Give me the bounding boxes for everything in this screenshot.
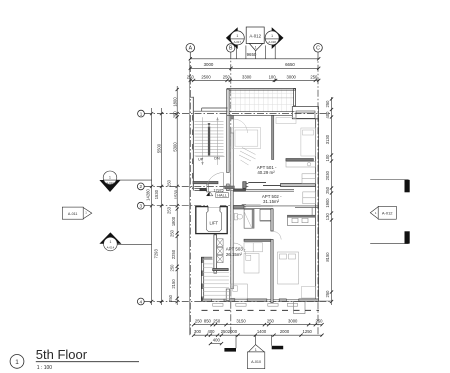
- svg-text:A-011: A-011: [68, 212, 78, 216]
- stair center divider: [201, 117, 218, 165]
- grid line C: [317, 52, 319, 335]
- svg-text:A-018: A-018: [268, 40, 276, 44]
- svg-text:1800: 1800: [171, 216, 176, 226]
- svg-text:250: 250: [167, 179, 172, 187]
- left dimension line middle: [154, 108, 164, 305]
- apt501 rug and table: [232, 128, 261, 165]
- svg-text:250: 250: [170, 264, 175, 272]
- apt503 interior door arc: [234, 243, 246, 255]
- svg-text:APT 501 -: APT 501 -: [257, 165, 277, 170]
- dimension line 250/2500/250/3300/100/3000/250: [187, 75, 320, 83]
- apt502 bed: [278, 252, 299, 284]
- lower-left exterior wall: [201, 257, 212, 299]
- svg-text:1530: 1530: [173, 189, 178, 199]
- svg-text:1: 1: [255, 348, 257, 352]
- dimension connector line left: [188, 59, 190, 335]
- dimension line 9650 top: [189, 52, 321, 60]
- right exterior wall: [315, 119, 318, 302]
- apt503 bed: [231, 284, 247, 298]
- apt502 bedroom divider wall: [271, 209, 273, 303]
- svg-text:2250: 2250: [171, 249, 176, 259]
- svg-text:A-010: A-010: [251, 360, 261, 364]
- svg-text:2000: 2000: [280, 329, 290, 334]
- svg-text:B: B: [229, 46, 233, 52]
- hall door arc: [206, 173, 223, 190]
- apt502 kitchen: [287, 215, 315, 225]
- svg-text:3000: 3000: [204, 62, 214, 67]
- top-right window box: [292, 107, 318, 119]
- svg-text:DN: DN: [214, 157, 220, 161]
- grid bubble A: [186, 44, 195, 53]
- grid line A: [189, 53, 191, 336]
- svg-text:250: 250: [316, 319, 324, 324]
- grid line 1: [145, 113, 332, 115]
- elevation marker A-013 left: [99, 171, 151, 192]
- lift shaft: [196, 206, 227, 234]
- svg-text:1: 1: [140, 111, 143, 116]
- duct shaft wall: [213, 235, 229, 273]
- stair right wall: [227, 89, 230, 191]
- apt501 closet: [302, 174, 315, 184]
- svg-text:250: 250: [325, 290, 330, 298]
- stair labels: [198, 157, 220, 162]
- level marker hall: [206, 188, 224, 196]
- left dimension line inner: [167, 86, 179, 305]
- svg-text:1: 1: [15, 359, 19, 366]
- grid bubble C: [314, 44, 323, 53]
- svg-text:1: 1: [271, 34, 273, 38]
- svg-text:2030: 2030: [325, 170, 330, 180]
- elevation marker A-017 top-left: [226, 27, 244, 49]
- svg-text:250: 250: [223, 75, 231, 80]
- lift car: [206, 211, 221, 232]
- svg-text:130: 130: [325, 213, 330, 221]
- svg-text:1900: 1900: [325, 198, 330, 208]
- grid line 3: [144, 205, 233, 207]
- title text 5th Floor: [36, 347, 139, 371]
- apt501 divider wall: [272, 116, 274, 160]
- svg-text:3: 3: [140, 204, 143, 209]
- dim extension line bottom right: [319, 300, 333, 302]
- section marker A-010 bottom: [224, 335, 283, 368]
- apt501 kitchen counter: [286, 162, 315, 168]
- svg-text:A-012: A-012: [249, 34, 261, 39]
- svg-text:100: 100: [325, 154, 330, 162]
- svg-text:5300: 5300: [172, 142, 177, 152]
- svg-text:1800: 1800: [172, 97, 177, 107]
- grid bubble 1: [138, 110, 145, 117]
- elevation marker A-014 left lower: [99, 232, 151, 250]
- stair upper treads: [195, 122, 225, 157]
- exterior stoop bottom right: [294, 302, 306, 314]
- windows in bottom wall: [212, 299, 299, 306]
- hall label: [216, 193, 229, 198]
- right dimension line: [325, 97, 333, 305]
- svg-text:6650: 6650: [285, 62, 295, 67]
- svg-text:250: 250: [170, 229, 175, 237]
- svg-text:5th Floor: 5th Floor: [36, 347, 88, 362]
- apt501 south wall with balcony door: [243, 182, 316, 189]
- elevation marker A-018 top-right: [265, 27, 283, 49]
- svg-text:1: 1: [109, 240, 111, 244]
- svg-text:400: 400: [213, 338, 221, 343]
- grid bubble 4: [137, 298, 144, 305]
- dashed overhead line on left wall: [192, 115, 194, 189]
- apt502 bedroom door: [271, 231, 281, 240]
- bottom dimension line row 2: [192, 329, 324, 337]
- grid bubble B: [227, 44, 235, 52]
- svg-text:7293: 7293: [154, 248, 159, 258]
- svg-text:250: 250: [310, 75, 318, 80]
- svg-text:40.29 m²: 40.29 m²: [257, 170, 275, 175]
- apt501 bed: [276, 118, 315, 157]
- stair hall divider wall: [194, 188, 206, 190]
- svg-text:HALL: HALL: [217, 193, 228, 198]
- apt502 label: [262, 194, 282, 204]
- terrace paving grid: [229, 90, 293, 113]
- bottom dimension line row 1: [192, 319, 324, 327]
- svg-text:1 : 100: 1 : 100: [37, 365, 53, 371]
- grid line 4: [144, 301, 330, 303]
- svg-text:300: 300: [194, 329, 202, 334]
- svg-text:400: 400: [325, 111, 330, 119]
- section marker A-012 top: [246, 27, 264, 51]
- bottom mini dimension 400: [209, 338, 223, 346]
- grid line B: [230, 52, 232, 335]
- apt503 label: [226, 247, 246, 257]
- svg-text:A-017: A-017: [234, 40, 242, 44]
- svg-text:250: 250: [195, 319, 203, 324]
- svg-text:253: 253: [167, 206, 172, 214]
- dashed overhead line on lower-left wall: [201, 258, 203, 302]
- svg-text:250: 250: [325, 100, 330, 108]
- svg-text:A-014: A-014: [107, 246, 115, 250]
- title bubble: [10, 355, 24, 369]
- apt501 entry door: [234, 119, 248, 133]
- svg-text:100: 100: [269, 75, 277, 80]
- svg-text:2500: 2500: [201, 75, 211, 80]
- svg-text:A-013: A-013: [106, 181, 114, 185]
- wall grid B interior: [225, 115, 235, 288]
- svg-text:2000: 2000: [228, 329, 238, 334]
- svg-text:A-012: A-012: [382, 211, 393, 216]
- svg-text:C: C: [316, 46, 320, 52]
- svg-text:1400: 1400: [257, 329, 267, 334]
- grid bubble 2: [137, 183, 144, 190]
- svg-text:1530: 1530: [154, 189, 159, 199]
- svg-text:250: 250: [213, 319, 221, 324]
- left exterior wall: [190, 97, 193, 191]
- svg-text:1: 1: [236, 34, 238, 38]
- shower: [244, 209, 254, 228]
- svg-text:1: 1: [85, 210, 87, 214]
- svg-text:250: 250: [168, 294, 173, 302]
- svg-text:250: 250: [325, 186, 330, 194]
- svg-text:3000: 3000: [288, 319, 298, 324]
- svg-text:31.15m²: 31.15m²: [263, 199, 280, 204]
- svg-text:LIFT: LIFT: [209, 221, 218, 226]
- svg-text:8150: 8150: [325, 252, 330, 262]
- svg-text:5500: 5500: [156, 143, 161, 153]
- apt502 north wall: [242, 204, 319, 215]
- svg-text:1: 1: [375, 211, 377, 215]
- svg-text:A: A: [189, 46, 193, 52]
- svg-text:1: 1: [255, 45, 257, 49]
- svg-text:1250: 1250: [303, 329, 313, 334]
- svg-text:250: 250: [267, 319, 275, 324]
- balcony railing: [234, 189, 295, 191]
- svg-text:850: 850: [204, 319, 212, 324]
- duct boxes: [217, 239, 223, 263]
- svg-text:2: 2: [140, 184, 143, 189]
- svg-text:APT 502 -: APT 502 -: [262, 194, 282, 199]
- svg-text:3150: 3150: [236, 319, 246, 324]
- svg-text:9650: 9650: [247, 52, 257, 57]
- apt502 desk: [302, 287, 316, 299]
- stair landing edge wall: [193, 181, 218, 192]
- svg-text:14280: 14280: [146, 189, 151, 201]
- elevation sight lines top: [236, 46, 275, 59]
- apt503 door leaf: [226, 289, 229, 300]
- svg-text:3130: 3130: [325, 134, 330, 144]
- apt501 label: [257, 165, 277, 175]
- dashed line below south wall: [202, 309, 320, 311]
- left dimension line outer: [146, 108, 154, 305]
- grid line 2: [144, 185, 232, 187]
- kitchen stub wall apt501: [286, 159, 314, 162]
- svg-text:250: 250: [172, 111, 177, 119]
- svg-text:3300: 3300: [242, 75, 252, 80]
- apt502 wardrobe: [303, 192, 316, 204]
- svg-text:3000: 3000: [287, 75, 297, 80]
- bathroom north wall: [234, 205, 274, 209]
- toilet: [234, 214, 242, 220]
- svg-text:UP: UP: [198, 157, 204, 161]
- stair top wall: [194, 108, 228, 111]
- terrace walls: [227, 89, 296, 106]
- svg-text:2150: 2150: [171, 279, 176, 289]
- svg-text:26.15m²: 26.15m²: [226, 252, 243, 257]
- grid bubble 3: [137, 202, 144, 209]
- section marker A-012 right: [370, 180, 410, 244]
- apt503 wardrobe and bed: [244, 243, 263, 273]
- section marker A-011 far left: [62, 207, 92, 219]
- svg-text:400: 400: [208, 329, 216, 334]
- bathroom south wall: [244, 239, 271, 241]
- bottom exterior wall: [201, 299, 318, 302]
- svg-text:1: 1: [109, 175, 111, 179]
- svg-text:250: 250: [187, 75, 195, 80]
- svg-text:4: 4: [140, 299, 143, 304]
- main top wall: [227, 112, 295, 116]
- lower stair treads: [203, 260, 229, 299]
- dimension line 3000/6650: [189, 62, 321, 70]
- washbasin counter: [260, 209, 271, 221]
